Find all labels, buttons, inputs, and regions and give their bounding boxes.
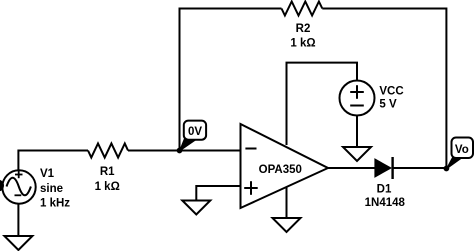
- wire R1 to op-amp inverting input: [128, 150, 241, 152]
- wire diode to Vo junction: [393, 167, 447, 169]
- svg-text:1 kΩ: 1 kΩ: [95, 181, 120, 193]
- svg-text:V1: V1: [40, 168, 55, 180]
- wire V1 to ground: [17, 204, 19, 236]
- source V1: [2, 170, 35, 203]
- wire op-amp ground pin: [286, 187, 288, 219]
- ground at op-amp + input: [182, 201, 210, 215]
- svg-text:5 V: 5 V: [379, 99, 397, 111]
- wire VCC to ground: [356, 116, 358, 148]
- resistor R2: [282, 2, 323, 16]
- diode D1: [375, 159, 391, 177]
- svg-text:Vo: Vo: [455, 144, 469, 156]
- svg-text:R1: R1: [100, 166, 115, 178]
- ground below VCC: [343, 147, 371, 161]
- svg-text:1 kΩ: 1 kΩ: [290, 38, 315, 50]
- ground below op-amp: [273, 218, 301, 232]
- svg-text:R2: R2: [296, 23, 311, 35]
- source VCC: [340, 81, 375, 116]
- ground below V1: [4, 236, 32, 250]
- node Vo callout: [446, 157, 463, 170]
- svg-text:VCC: VCC: [379, 86, 403, 98]
- svg-text:D1: D1: [377, 184, 392, 196]
- resistor R1: [88, 144, 128, 158]
- op-amp U1 OPA350: [241, 124, 329, 208]
- node 0V junction dot: [177, 148, 183, 154]
- svg-text:1N4148: 1N4148: [365, 197, 406, 209]
- wire feedback vertical left (node 0V to top): [180, 9, 282, 151]
- svg-text:1 kHz: 1 kHz: [40, 198, 70, 210]
- svg-text:OPA350: OPA350: [259, 164, 302, 176]
- svg-text:sine: sine: [40, 183, 63, 195]
- node 0V callout: [180, 139, 198, 152]
- node Vo junction dot: [444, 166, 450, 172]
- wire op-amp VCC pin: [287, 63, 358, 145]
- svg-text:0V: 0V: [188, 126, 202, 138]
- wire op-amp + input: [196, 186, 240, 201]
- wire R2 right to Vo junction: [322, 9, 446, 169]
- wire op-amp output to diode: [328, 167, 375, 169]
- wire V1 to R1: [18, 151, 88, 171]
